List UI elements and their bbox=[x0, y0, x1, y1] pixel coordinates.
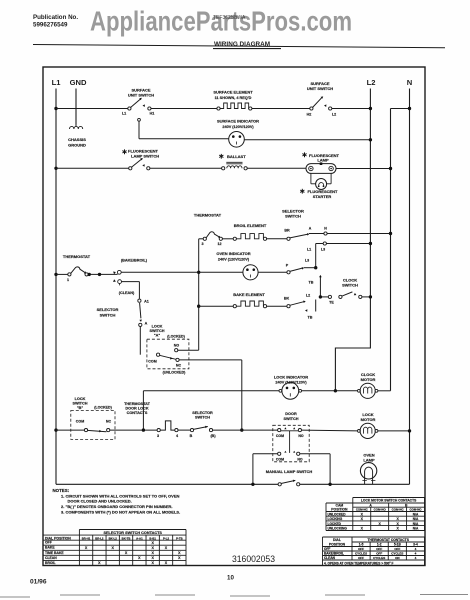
wire left branch vertical bbox=[198, 239, 200, 350]
svg-text:NOTES:: NOTES: bbox=[53, 488, 70, 493]
svg-text:"B": "B" bbox=[77, 406, 84, 410]
svg-text:MOTOR: MOTOR bbox=[361, 377, 376, 382]
svg-text:BAKE: BAKE bbox=[45, 546, 55, 550]
svg-text:UNLOCKED: UNLOCKED bbox=[328, 512, 347, 516]
lock switch A enclosure bbox=[147, 339, 189, 369]
svg-text:OFF: OFF bbox=[45, 541, 52, 545]
svg-text:CYCLES: CYCLES bbox=[373, 556, 385, 560]
door switch enclosure bbox=[273, 425, 309, 462]
svg-text:CHASSIS: CHASSIS bbox=[68, 137, 86, 142]
svg-text:X: X bbox=[125, 551, 128, 555]
label fluorescent lamp bbox=[304, 152, 306, 157]
junction mid vertical lamp bbox=[389, 167, 392, 170]
svg-text:P: P bbox=[286, 264, 289, 268]
svg-text:CLEAN: CLEAN bbox=[45, 556, 57, 560]
wire indicator row bbox=[199, 271, 243, 273]
svg-text:TE: TE bbox=[329, 300, 334, 304]
svg-text:FLUORESCENT: FLUORESCENT bbox=[128, 148, 159, 153]
svg-text:X: X bbox=[396, 527, 399, 531]
contact bake-broil selector A bbox=[113, 272, 116, 275]
svg-text:LOCK: LOCK bbox=[152, 325, 163, 329]
svg-text:LOCK MOTOR SWITCH CONTACTS: LOCK MOTOR SWITCH CONTACTS bbox=[361, 499, 417, 503]
svg-text:CLOCK: CLOCK bbox=[361, 372, 375, 377]
wire clean to A1 bbox=[122, 281, 140, 283]
svg-text:GROUND: GROUND bbox=[68, 143, 86, 148]
wire clock motor to mid vertical bbox=[378, 390, 391, 392]
svg-text:DOOR: DOOR bbox=[285, 412, 297, 416]
wire lamp to mid vertical bbox=[336, 168, 391, 170]
svg-text:4. OPENS AT OVEN TEMPERATURES: 4. OPENS AT OVEN TEMPERATURES > 590° F bbox=[324, 561, 394, 565]
svg-text:X: X bbox=[112, 546, 115, 550]
svg-text:X: X bbox=[165, 561, 168, 565]
svg-text:12: 12 bbox=[217, 242, 221, 246]
svg-text:LOCKED: LOCKED bbox=[328, 522, 342, 526]
inductor L1 ballast bbox=[222, 167, 225, 170]
svg-text:BK-L2: BK-L2 bbox=[109, 536, 118, 540]
svg-text:Publication No.: Publication No. bbox=[33, 14, 78, 21]
junction L1 thermostat row bbox=[54, 273, 57, 276]
switch S2 surface unit switch (H2-L2) bbox=[310, 107, 313, 110]
svg-text:X: X bbox=[85, 546, 88, 550]
svg-text:OFF: OFF bbox=[358, 547, 364, 551]
junction bottom left bbox=[251, 483, 254, 486]
svg-text:COM: COM bbox=[148, 359, 156, 363]
svg-text:BK-TB: BK-TB bbox=[122, 536, 131, 540]
lock motor switch contacts table grid bbox=[353, 497, 425, 499]
svg-text:1. CIRCUIT SHOWN WITH ALL CON: 1. CIRCUIT SHOWN WITH ALL CONTROLS SET T… bbox=[61, 493, 179, 498]
junction N lock motor bbox=[408, 429, 411, 432]
svg-text:THERMOSTAT: THERMOSTAT bbox=[124, 402, 150, 406]
wire clock row a bbox=[320, 296, 328, 298]
svg-text:POSITION: POSITION bbox=[331, 508, 348, 512]
label fluorescent starter bbox=[301, 189, 303, 194]
contact BR selector bbox=[287, 237, 290, 240]
svg-text:(UNLOCKED): (UNLOCKED) bbox=[163, 371, 187, 375]
svg-text:11 SHOWN, 4 REQ'D: 11 SHOWN, 4 REQ'D bbox=[215, 96, 252, 100]
svg-text:BR: BR bbox=[284, 229, 290, 233]
switch selector wiper A bbox=[140, 303, 141, 318]
svg-text:N/A: N/A bbox=[413, 512, 419, 516]
svg-text:CLEAN: CLEAN bbox=[324, 556, 336, 560]
wire row2 left bbox=[56, 167, 129, 169]
svg-text:OFF: OFF bbox=[376, 547, 382, 551]
svg-text:X: X bbox=[98, 561, 101, 565]
svg-text:BR-H1: BR-H1 bbox=[82, 536, 91, 540]
svg-text:BROIL: BROIL bbox=[45, 561, 56, 565]
svg-text:SWITCH: SWITCH bbox=[73, 402, 88, 406]
svg-text:N/A: N/A bbox=[413, 517, 419, 521]
terminal N selector row A bbox=[324, 232, 327, 235]
svg-text:STARTER: STARTER bbox=[313, 194, 332, 199]
svg-text:SELECTOR: SELECTOR bbox=[192, 411, 213, 415]
wire bake row a bbox=[199, 305, 234, 307]
wire row1 mid bbox=[151, 108, 217, 110]
motor B1 clock motor bbox=[358, 389, 361, 392]
svg-text:CYCLES: CYCLES bbox=[391, 552, 403, 556]
svg-text:240V (120V/120V): 240V (120V/120V) bbox=[275, 381, 307, 385]
svg-text:4: 4 bbox=[176, 434, 179, 438]
wire N bus bbox=[409, 89, 411, 485]
svg-text:COM-NC: COM-NC bbox=[356, 508, 369, 512]
lamp DS4 lock indicator bbox=[279, 389, 282, 392]
svg-text:LOCKING: LOCKING bbox=[328, 517, 343, 521]
switch S3 fluorescent lamp switch bbox=[129, 167, 132, 170]
svg-text:X: X bbox=[151, 546, 154, 550]
wire door switch lower right bbox=[300, 453, 330, 455]
svg-text:1: 1 bbox=[67, 278, 69, 282]
svg-text:COM-NO: COM-NO bbox=[374, 508, 387, 512]
svg-text:DIAL POSITION: DIAL POSITION bbox=[45, 536, 71, 540]
svg-text:TEF362BBWA: TEF362BBWA bbox=[213, 15, 246, 21]
svg-text:A-A1: A-A1 bbox=[136, 536, 143, 540]
svg-text:DIAL: DIAL bbox=[333, 538, 341, 542]
svg-text:NC: NC bbox=[176, 364, 182, 368]
switch selector contact B bbox=[190, 429, 193, 432]
svg-text:10: 10 bbox=[227, 575, 234, 582]
header rule bbox=[33, 45, 445, 48]
svg-text:TB: TB bbox=[308, 316, 313, 320]
svg-text:OFF: OFF bbox=[324, 547, 330, 551]
svg-text:GND: GND bbox=[70, 78, 87, 87]
svg-text:240V (120V/120V): 240V (120V/120V) bbox=[218, 257, 250, 261]
svg-text:COM: COM bbox=[276, 434, 284, 438]
junction mid vertical row A bbox=[389, 232, 392, 235]
svg-text:NO: NO bbox=[174, 344, 180, 348]
svg-text:X: X bbox=[178, 556, 181, 560]
svg-text:THERMOSTAT CONTACTS: THERMOSTAT CONTACTS bbox=[368, 538, 410, 542]
svg-text:CYCLES: CYCLES bbox=[355, 552, 367, 556]
svg-text:L2: L2 bbox=[306, 294, 310, 298]
svg-text:NO: NO bbox=[298, 434, 304, 438]
svg-text:COM: COM bbox=[76, 419, 84, 423]
svg-text:3-4: 3-4 bbox=[413, 543, 418, 547]
svg-text:LOCK INDICATOR: LOCK INDICATOR bbox=[274, 374, 308, 379]
junction L1 door lock row bbox=[54, 428, 57, 431]
svg-text:NO: NO bbox=[297, 458, 303, 462]
heater R1 surface element bbox=[217, 107, 220, 110]
svg-text:H1: H1 bbox=[150, 112, 155, 116]
svg-text:UNLOCKING: UNLOCKING bbox=[328, 527, 348, 531]
thermostat contacts table grid bbox=[323, 536, 425, 538]
junction left branch bake bbox=[197, 305, 200, 308]
junction N row1 bbox=[408, 107, 411, 110]
svg-text:SWITCH: SWITCH bbox=[195, 416, 210, 420]
svg-text:DOOR CLOSED AND UNLOCKED.: DOOR CLOSED AND UNLOCKED. bbox=[68, 499, 132, 504]
svg-text:L1: L1 bbox=[307, 248, 311, 252]
svg-text:DOOR LOCK: DOOR LOCK bbox=[125, 406, 148, 410]
wire clock row b bbox=[362, 296, 371, 298]
svg-text:BROIL ELEMENT: BROIL ELEMENT bbox=[234, 223, 267, 228]
svg-text:X: X bbox=[361, 527, 364, 531]
svg-text:(LOCKED): (LOCKED) bbox=[167, 335, 185, 339]
svg-text:BAKE/BROIL: BAKE/BROIL bbox=[324, 552, 344, 556]
svg-text:"A": "A" bbox=[154, 334, 161, 338]
svg-text:X: X bbox=[151, 561, 154, 565]
lamp DS1 surface indicator bbox=[229, 132, 245, 148]
svg-text:(LOCKED): (LOCKED) bbox=[94, 406, 112, 410]
svg-text:UNIT SWITCH: UNIT SWITCH bbox=[307, 86, 333, 91]
contact P selector bbox=[287, 271, 290, 274]
wire bakebroil feed bbox=[121, 271, 198, 273]
junction lock A NC row bbox=[240, 428, 243, 431]
svg-text:WIRING DIAGRAM: WIRING DIAGRAM bbox=[214, 41, 270, 48]
switch thermostat broil contacts 3-12 bbox=[199, 238, 204, 240]
svg-text:ON: ON bbox=[395, 556, 400, 560]
svg-text:THERMOSTAT: THERMOSTAT bbox=[194, 213, 222, 218]
ground chassis symbol bbox=[75, 125, 77, 127]
svg-text:SWITCH: SWITCH bbox=[284, 417, 299, 421]
diagram border frame bbox=[43, 67, 425, 566]
junction L2-drop lock row bbox=[334, 389, 337, 392]
svg-text:3: 3 bbox=[201, 242, 203, 246]
svg-text:SWITCH: SWITCH bbox=[150, 329, 165, 333]
junction L2 clock row bbox=[369, 295, 372, 298]
svg-text:B: B bbox=[190, 434, 193, 438]
wire selector L3 bracket bbox=[315, 244, 317, 268]
wire lock indicator feed bbox=[142, 391, 144, 430]
svg-text:3. COMPONENTS WITH (*) DO NOT: 3. COMPONENTS WITH (*) DO NOT APPEAR ON … bbox=[61, 509, 180, 514]
switch thermostat door lock contacts 3-4 bbox=[157, 429, 160, 432]
svg-text:LOCK: LOCK bbox=[362, 412, 373, 417]
wire wiper A to lock switch bbox=[139, 327, 141, 355]
wire door switch lower left bbox=[253, 453, 278, 455]
wire L2 drop to lock indicator row bbox=[335, 297, 370, 391]
svg-text:316002053: 316002053 bbox=[232, 554, 275, 564]
svg-text:5-1B: 5-1B bbox=[394, 543, 402, 547]
wire broil row a bbox=[222, 238, 233, 240]
svg-text:L1: L1 bbox=[52, 78, 62, 87]
svg-text:5996276549: 5996276549 bbox=[33, 22, 68, 29]
svg-text:AppliancePartsPros.com: AppliancePartsPros.com bbox=[90, 6, 352, 37]
wire door switch inner bbox=[289, 431, 291, 453]
svg-text:COM: COM bbox=[276, 458, 284, 462]
svg-text:3: 3 bbox=[157, 434, 159, 438]
svg-text:LOCK: LOCK bbox=[75, 397, 86, 401]
svg-text:OVEN INDICATOR: OVEN INDICATOR bbox=[216, 251, 250, 256]
wire row1 left bbox=[56, 108, 128, 110]
heater R3 bake element bbox=[233, 305, 236, 308]
wire row2 mid bbox=[150, 167, 222, 169]
svg-text:01/96: 01/96 bbox=[30, 579, 47, 586]
svg-text:UNIT SWITCH: UNIT SWITCH bbox=[128, 93, 154, 98]
wire door lock row a bbox=[56, 429, 85, 431]
svg-text:SWITCH: SWITCH bbox=[342, 283, 358, 288]
wire GND stub bbox=[75, 89, 77, 125]
svg-text:240V (120V/120V): 240V (120V/120V) bbox=[222, 125, 254, 129]
svg-text:LAMP: LAMP bbox=[363, 458, 375, 463]
svg-text:(B): (B) bbox=[210, 434, 216, 438]
terminal A1 bbox=[138, 299, 141, 302]
svg-text:P-L2: P-L2 bbox=[163, 536, 170, 540]
svg-text:OFF: OFF bbox=[358, 556, 364, 560]
svg-text:A1: A1 bbox=[144, 300, 149, 304]
svg-text:BAKE ELEMENT: BAKE ELEMENT bbox=[233, 292, 265, 297]
lamp DS3 oven indicator bbox=[243, 265, 258, 280]
svg-text:X: X bbox=[165, 546, 168, 550]
lock switch B enclosure bbox=[71, 411, 115, 440]
svg-text:LAMP: LAMP bbox=[317, 158, 329, 163]
wire door lock row c bbox=[178, 429, 190, 431]
wire selector TB bracket bbox=[319, 277, 321, 297]
starter V1 fluorescent starter bbox=[310, 173, 312, 183]
svg-text:2. "B( )" DENOTES ONBOARD CON: 2. "B( )" DENOTES ONBOARD CONNECTOR PIN … bbox=[61, 504, 173, 509]
contact clean selector A bbox=[113, 279, 116, 282]
svg-text:BALLAST: BALLAST bbox=[227, 154, 246, 159]
wire selector row A bbox=[309, 233, 391, 235]
svg-text:MOTOR: MOTOR bbox=[361, 417, 376, 422]
svg-text:SWITCH: SWITCH bbox=[285, 214, 301, 219]
wire row1 to L2 bbox=[332, 108, 371, 110]
lamp DS2 fluorescent lamp bbox=[306, 164, 336, 174]
svg-text:OFF: OFF bbox=[376, 552, 382, 556]
wire bake row b bbox=[267, 305, 287, 307]
switch thermostat 1 bbox=[56, 273, 68, 275]
switch S8 door switch lower bbox=[278, 452, 281, 455]
svg-text:SELECTOR SWITCH CONTACTS: SELECTOR SWITCH CONTACTS bbox=[103, 531, 162, 535]
svg-text:LAMP SWITCH: LAMP SWITCH bbox=[131, 154, 159, 159]
svg-text:(BAKE/BROIL): (BAKE/BROIL) bbox=[121, 258, 148, 262]
junction L2 row1 bbox=[369, 107, 372, 110]
svg-text:L2: L2 bbox=[367, 78, 376, 87]
svg-text:N: N bbox=[407, 78, 412, 87]
svg-text:L3: L3 bbox=[305, 259, 309, 263]
svg-text:THERMOSTAT: THERMOSTAT bbox=[63, 254, 91, 259]
svg-text:X: X bbox=[151, 551, 154, 555]
wire indicator to L2 bbox=[244, 139, 370, 141]
wire lock A NC drop bbox=[179, 359, 242, 361]
wire door lock row d bbox=[213, 429, 278, 431]
svg-text:NC: NC bbox=[106, 419, 112, 423]
wire row2 to lamp bbox=[247, 167, 306, 169]
wire thermostat row bbox=[88, 273, 117, 275]
wire bottom bus bbox=[56, 483, 410, 485]
wire row1 right bbox=[252, 108, 310, 110]
wire L1 bus bbox=[55, 89, 57, 485]
svg-text:X: X bbox=[178, 551, 181, 555]
svg-text:1-2: 1-2 bbox=[377, 543, 382, 547]
svg-text:MANUAL LAMP SWITCH: MANUAL LAMP SWITCH bbox=[266, 469, 313, 474]
svg-text:SWITCH: SWITCH bbox=[100, 313, 116, 318]
junction left branch indicator bbox=[197, 271, 200, 274]
wire lock indicator row a bbox=[143, 390, 280, 392]
contact BK selector bbox=[287, 305, 290, 308]
svg-text:CONTACTS: CONTACTS bbox=[127, 411, 148, 415]
heater R2 broil element bbox=[233, 237, 236, 240]
wire door lock row b bbox=[110, 429, 157, 431]
svg-text:N/A: N/A bbox=[413, 522, 419, 526]
selector switch contacts table grid bbox=[79, 529, 186, 531]
wire selector row B bbox=[316, 243, 371, 245]
wire mid vertical (lamp/selector feed) bbox=[390, 109, 392, 391]
svg-text:TB: TB bbox=[309, 281, 314, 285]
wire lock motor row bbox=[302, 429, 358, 432]
svg-text:H2: H2 bbox=[307, 113, 312, 117]
svg-text:B-B1: B-B1 bbox=[149, 536, 156, 540]
switch S9 manual lamp switch bbox=[278, 482, 300, 487]
switch S1 surface unit switch (L1-H1) bbox=[128, 107, 131, 110]
svg-text:SURFACE ELEMENT: SURFACE ELEMENT bbox=[213, 90, 253, 95]
wire L2 bus bbox=[369, 89, 371, 297]
svg-text:COM-NO: COM-NO bbox=[410, 508, 423, 512]
svg-text:POSITION: POSITION bbox=[329, 543, 346, 547]
svg-text:TIME BAKE: TIME BAKE bbox=[45, 551, 64, 555]
svg-text:X: X bbox=[151, 556, 154, 560]
svg-text:X: X bbox=[151, 541, 154, 545]
wire lock motor to N bbox=[378, 430, 410, 432]
terminal selector row B bbox=[323, 242, 326, 245]
svg-text:COM-NC: COM-NC bbox=[392, 508, 405, 512]
svg-text:OFF: OFF bbox=[394, 547, 400, 551]
junction L1 row1 bbox=[54, 107, 57, 110]
label fluorescent lamp switch bbox=[124, 149, 126, 154]
junction bottom right bbox=[328, 483, 331, 486]
wire lock A NO to bake branch bbox=[178, 349, 199, 351]
svg-text:BK: BK bbox=[284, 297, 290, 301]
svg-text:A: A bbox=[309, 227, 312, 231]
junction L2 row B bbox=[369, 242, 372, 245]
svg-text:(CLEAN): (CLEAN) bbox=[119, 291, 135, 295]
svg-text:SURFACE INDICATOR: SURFACE INDICATOR bbox=[217, 119, 259, 124]
motor B2 lock motor bbox=[358, 430, 361, 433]
footer scan artifact line bbox=[0, 595, 468, 598]
svg-text:SELECTOR: SELECTOR bbox=[97, 307, 119, 312]
wire indicator drop bbox=[138, 118, 141, 121]
wire indicator to P bbox=[258, 271, 287, 273]
svg-text:L3: L3 bbox=[321, 248, 325, 252]
switch S7 door switch upper bbox=[278, 429, 281, 432]
switch S4 clock switch bbox=[328, 295, 331, 298]
wire broil row b bbox=[267, 238, 287, 240]
svg-text:N: N bbox=[324, 227, 327, 231]
svg-text:1-5: 1-5 bbox=[359, 543, 364, 547]
svg-text:N/A: N/A bbox=[413, 527, 419, 531]
wire lock indicator row b bbox=[302, 390, 358, 392]
svg-text:X: X bbox=[138, 556, 141, 560]
junction L1 row2 bbox=[54, 167, 57, 170]
svg-text:BR-L2: BR-L2 bbox=[95, 536, 104, 540]
wire N to mid vertical jog bbox=[391, 108, 410, 110]
svg-text:L2: L2 bbox=[332, 113, 336, 117]
junction L2 indicator bbox=[369, 138, 372, 141]
lamp DS5 oven lamp bbox=[360, 463, 376, 479]
svg-text:P-TB: P-TB bbox=[176, 536, 183, 540]
svg-text:L1: L1 bbox=[122, 112, 126, 116]
svg-text:A: A bbox=[145, 322, 148, 326]
